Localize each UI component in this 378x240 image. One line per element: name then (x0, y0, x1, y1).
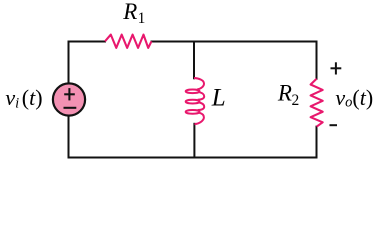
svg-text:R: R (277, 80, 292, 105)
svg-text:2: 2 (292, 92, 300, 109)
svg-text:L: L (211, 85, 226, 112)
svg-text:vi(t): vi(t) (5, 85, 42, 111)
svg-text:vo(t): vo(t) (335, 85, 373, 111)
svg-text:1: 1 (138, 10, 146, 27)
svg-text:R: R (122, 0, 137, 24)
